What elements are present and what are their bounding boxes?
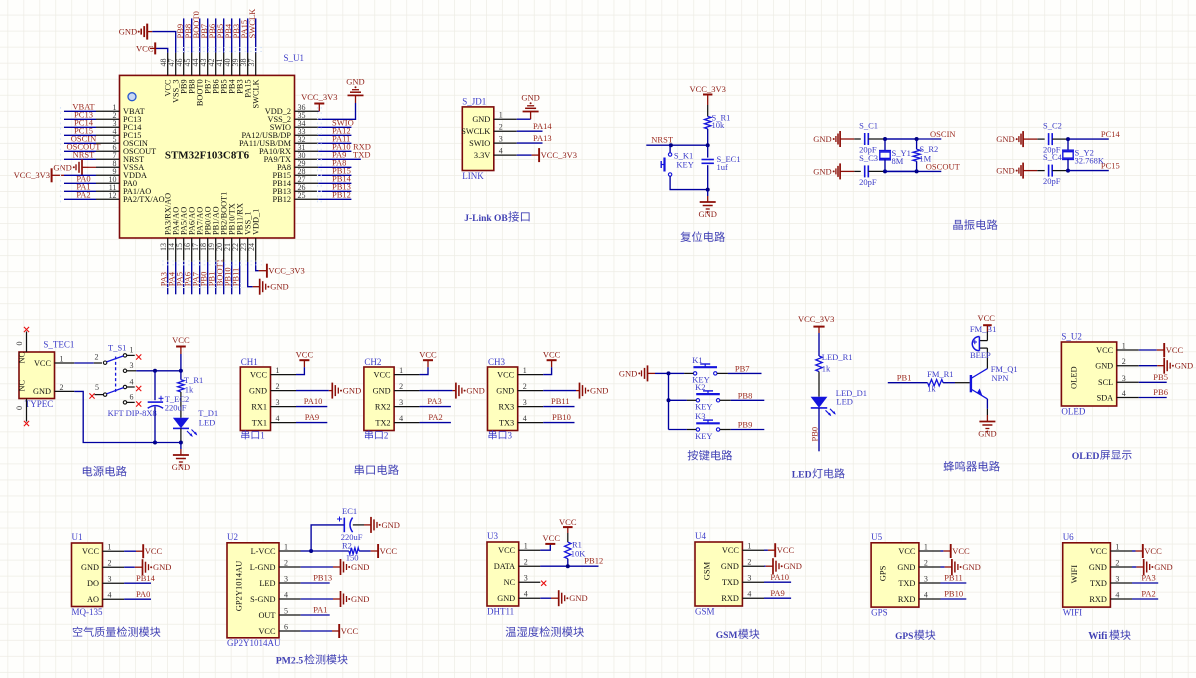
switch throw6 stub	[127, 401, 135, 403]
wire net PB13	[301, 582, 330, 584]
junction	[153, 369, 157, 373]
svg-text:TX2: TX2	[375, 418, 390, 427]
svg-text:FM_R1: FM_R1	[927, 369, 953, 379]
svg-text:220uF: 220uF	[341, 532, 363, 542]
junction	[883, 169, 887, 173]
svg-text:1: 1	[523, 366, 527, 375]
svg-text:PA14: PA14	[533, 121, 552, 131]
svg-text:2: 2	[384, 431, 389, 441]
ground keys	[648, 372, 656, 374]
svg-text:GPS: GPS	[895, 632, 913, 642]
svg-text:PB12: PB12	[584, 556, 603, 566]
svg-text:1k: 1k	[927, 384, 936, 394]
svg-text:OUT: OUT	[258, 611, 275, 620]
wire net OSCIN	[64, 142, 96, 144]
svg-text:2: 2	[747, 558, 751, 567]
U1 pin 1 VCC	[103, 550, 125, 552]
svg-text:WIFI: WIFI	[1063, 607, 1083, 617]
svg-text:GND: GND	[373, 386, 391, 395]
wire K1 to net PB7	[717, 372, 728, 374]
wire emitter to ground	[986, 399, 988, 409]
svg-text:S_C3: S_C3	[859, 153, 878, 163]
svg-text:1: 1	[130, 346, 134, 355]
wire net PA10	[764, 581, 791, 583]
ground for S_C3	[840, 170, 854, 172]
svg-text:KEY: KEY	[695, 402, 712, 412]
capacitor T_EC2 220uF	[148, 401, 163, 403]
capacitor S_C4 20pF	[1048, 165, 1050, 177]
svg-text:GND: GND	[1154, 562, 1172, 572]
svg-text:GND: GND	[721, 562, 739, 571]
wire net PA3	[420, 406, 451, 408]
ground at VSS_3	[146, 24, 148, 40]
svg-text:20pF: 20pF	[859, 177, 877, 187]
svg-text:1: 1	[524, 542, 528, 551]
MCU bottom pin 17 PA7/AO	[199, 238, 201, 262]
svg-text:24: 24	[247, 243, 256, 251]
title 空气质量检测模块	[73, 627, 161, 637]
switch pole5 stub	[95, 394, 104, 396]
svg-text:2: 2	[1122, 357, 1126, 366]
svg-text:2: 2	[524, 558, 528, 567]
svg-text:CH3: CH3	[488, 357, 506, 367]
svg-text:PM2.5: PM2.5	[276, 656, 304, 667]
svg-text:T_D1: T_D1	[198, 408, 218, 418]
wire net PA7	[199, 262, 201, 294]
svg-text:GND: GND	[813, 166, 831, 176]
svg-text:LED: LED	[792, 470, 812, 481]
svg-text:GND: GND	[270, 282, 288, 292]
svg-text:VCC: VCC	[559, 517, 577, 527]
ground for S_C1	[840, 138, 854, 140]
S_U2 pin 3 SCL	[1117, 381, 1139, 383]
MCU right pin 35 VSS_2	[295, 118, 319, 120]
svg-text:GND: GND	[351, 594, 369, 604]
svg-text:4: 4	[399, 414, 403, 423]
U6 pin 3 TXD	[1110, 582, 1132, 584]
MCU right pin 28 PB15	[295, 174, 319, 176]
svg-text:1: 1	[276, 366, 280, 375]
svg-text:SWCLK: SWCLK	[247, 8, 257, 39]
MCU right pin 36 VDD_2	[295, 110, 319, 112]
svg-text:1: 1	[1122, 342, 1126, 351]
svg-text:4: 4	[499, 147, 503, 156]
svg-text:1M: 1M	[919, 154, 931, 164]
svg-text:2: 2	[108, 559, 112, 568]
svg-text:37: 37	[247, 58, 256, 66]
wire net PA2	[1132, 598, 1158, 600]
TEC1 pin 2 GND	[55, 390, 75, 392]
ground buzzer	[979, 421, 995, 423]
MCU left pin 1 VBAT	[96, 110, 120, 112]
U1 pin 2 GND	[103, 566, 125, 568]
svg-text:VCC: VCC	[977, 313, 995, 323]
wire net PA2	[420, 422, 451, 424]
svg-text:2: 2	[399, 382, 403, 391]
power VCC OLED	[1157, 349, 1165, 351]
wire net PB11	[239, 262, 241, 294]
svg-text:PC14: PC14	[1101, 129, 1121, 139]
svg-text:S_U1: S_U1	[284, 53, 305, 63]
ground at JD1	[523, 111, 539, 113]
U2 pin 1 L-VCC	[279, 550, 301, 552]
MCU bottom pin 16 PA6/AO	[191, 238, 193, 262]
wire net PB9	[183, 18, 185, 52]
MCU left pin 12 PA2/TX/AO	[96, 198, 120, 200]
wire net PA13	[517, 142, 543, 144]
svg-text:4: 4	[276, 414, 280, 423]
svg-text:LED: LED	[259, 579, 275, 588]
wire net PA15	[247, 18, 249, 52]
MCU bottom pin 24 VDD_1	[255, 238, 257, 262]
svg-text:4: 4	[747, 590, 751, 599]
svg-text:4: 4	[924, 591, 928, 600]
junction	[566, 564, 570, 568]
svg-text:RX2: RX2	[375, 402, 391, 411]
wire R2 to VCC	[359, 550, 371, 552]
power VCC U1 pin1	[136, 550, 143, 552]
buzzer FM_B1 BEEP	[979, 347, 987, 349]
junction	[179, 369, 183, 373]
ground U4 pin2	[766, 565, 773, 567]
wire net PA5	[183, 262, 185, 294]
CH1 pin 2 GND	[271, 390, 297, 392]
svg-text:PB12: PB12	[273, 195, 291, 204]
junction	[915, 137, 919, 141]
wire GND down to rail	[74, 391, 155, 442]
svg-text:KEY: KEY	[695, 431, 712, 441]
svg-text:3: 3	[284, 575, 288, 584]
wire node to cap	[707, 145, 709, 157]
JD1 pin 3 SWIO	[494, 142, 517, 144]
wire U2 L-GND	[301, 566, 333, 568]
junction	[1066, 169, 1070, 173]
wire net PB15	[318, 174, 351, 176]
CH3 pin 2 GND	[518, 390, 544, 392]
svg-text:J-Link OB: J-Link OB	[464, 214, 508, 224]
wire U2 S-GND	[301, 598, 333, 600]
wire net PA3	[167, 262, 169, 294]
MCU top pin 40 PB4	[231, 53, 233, 76]
wire net PA9	[764, 597, 791, 599]
svg-text:4: 4	[130, 377, 134, 386]
MCU bottom pin 15 PA5/AO	[183, 238, 185, 262]
wire LED_D1 to PB0	[818, 408, 820, 451]
svg-text:GND: GND	[1089, 563, 1107, 572]
svg-text:10k: 10k	[712, 120, 726, 130]
power VCC to pin 48	[155, 48, 168, 52]
wire OLED GND	[1139, 365, 1157, 367]
wire PB1	[888, 382, 928, 384]
wire net PB10	[941, 598, 967, 600]
crystal S_Y1 8M	[879, 150, 891, 152]
wire EC1 to ground	[353, 524, 364, 526]
wire rail	[155, 442, 181, 444]
svg-text:SWCLK: SWCLK	[251, 79, 260, 108]
wire net PA9	[296, 422, 327, 424]
svg-text:GSM: GSM	[702, 561, 712, 580]
svg-text:VCC: VCC	[145, 546, 163, 556]
MCU top pin 47 VSS_3	[175, 53, 177, 76]
svg-text:3: 3	[524, 574, 528, 583]
svg-text:PA2: PA2	[76, 190, 90, 200]
MCU left pin 3 PC14	[96, 126, 120, 128]
wire net SWCLK	[255, 18, 257, 52]
svg-text:4: 4	[1115, 591, 1119, 600]
svg-text:PB14: PB14	[136, 573, 156, 583]
U5 pin 3 TXD	[919, 582, 941, 584]
svg-text:U4: U4	[695, 531, 706, 541]
MCU top pin 45 PB8	[191, 53, 193, 76]
label 串口3	[489, 430, 507, 439]
ground for S_C4	[1023, 170, 1037, 172]
power VCC U5 pin1	[943, 550, 950, 552]
wire net PA3	[1132, 582, 1158, 584]
wire pin8	[89, 166, 97, 168]
no connect U3 pin3	[541, 581, 546, 586]
svg-text:3: 3	[508, 431, 513, 441]
MCU top pin 48 VCC	[167, 53, 169, 76]
svg-text:VCC: VCC	[1090, 547, 1108, 556]
junction	[1066, 137, 1070, 141]
svg-text:LED: LED	[199, 418, 216, 428]
CH3 pin 3 RX3	[518, 406, 544, 408]
wire net PB7	[207, 18, 209, 52]
wire node to crystal	[884, 139, 886, 151]
svg-text:2: 2	[60, 383, 64, 392]
TEC1 pin 1 VCC	[55, 362, 75, 364]
svg-text:12: 12	[109, 191, 117, 200]
svg-text:TYPEC: TYPEC	[25, 399, 54, 409]
svg-text:RX1: RX1	[251, 402, 267, 411]
svg-text:VCC: VCC	[172, 335, 190, 345]
MCU right pin 30 PA9/TX	[295, 158, 319, 160]
ground U5 pin2	[945, 566, 952, 568]
wire net PA1	[64, 190, 96, 192]
svg-text:32.768K: 32.768K	[1075, 155, 1105, 165]
wire K2 to net PB8	[720, 399, 731, 401]
wire net PC15	[64, 134, 96, 136]
wire net PA10	[296, 406, 327, 408]
junction	[706, 188, 710, 192]
svg-text:VCC_3V3: VCC_3V3	[301, 92, 337, 102]
U4 pin 3 TXD	[742, 581, 764, 583]
svg-text:PB5: PB5	[1153, 372, 1168, 382]
junction	[153, 441, 157, 445]
wire U4 VCC	[764, 549, 768, 551]
power VCC U4 pin1	[768, 549, 775, 551]
LED LED_D1	[811, 397, 828, 408]
svg-text:PB10: PB10	[944, 589, 963, 599]
svg-text:4: 4	[284, 591, 288, 600]
wire K3 to net PB9	[720, 429, 731, 431]
MCU left pin 7 NRST	[96, 158, 120, 160]
MCU top pin 46 PB9	[183, 53, 185, 76]
wire JD1 pin1 to ground	[517, 118, 531, 120]
svg-text:PB7: PB7	[735, 363, 750, 373]
wire gnd to S_C4	[1037, 170, 1044, 172]
MCU top pin 41 PB5	[223, 53, 225, 76]
power VCC CH2	[423, 359, 433, 361]
title 温湿度检测模块	[506, 626, 584, 636]
svg-text:1: 1	[284, 543, 288, 552]
wire net PB10	[231, 262, 233, 294]
S_U2 pin 1 VCC	[1117, 349, 1139, 351]
CH3 pin 1 VCC	[518, 374, 544, 376]
U3 pin 2 DATA	[519, 565, 541, 567]
wire CH2 GND	[420, 390, 453, 392]
wire R1 to LED_D1	[818, 372, 820, 397]
wire cap to gnd node	[707, 165, 709, 189]
svg-text:VCC: VCC	[419, 349, 437, 359]
wire net VBAT	[64, 110, 96, 112]
svg-text:S_JD1: S_JD1	[462, 97, 486, 107]
svg-text:TX1: TX1	[252, 418, 267, 427]
title 蜂鸣器电路	[944, 461, 1000, 472]
svg-text:L-GND: L-GND	[250, 563, 276, 572]
wire T_R1 to LED	[180, 392, 182, 418]
svg-text:GND: GND	[521, 93, 539, 103]
connector CH1 body	[240, 367, 270, 431]
wire node to crystal	[1067, 139, 1069, 150]
connector CH3 body	[488, 367, 518, 431]
U4 pin 4 RXD	[742, 597, 764, 599]
svg-text:VCC: VCC	[380, 546, 398, 556]
power VCC buzzer	[983, 324, 992, 326]
ground at VSS_1	[253, 286, 260, 288]
svg-text:PB0: PB0	[810, 427, 820, 442]
svg-text:VCC: VCC	[497, 370, 515, 379]
MCU bottom pin 21 PB10/TX	[231, 238, 233, 262]
connector S_TEC1 body	[19, 352, 55, 399]
wire net PA14	[517, 130, 543, 132]
wire rail to gnd	[180, 443, 182, 450]
MCU left pin 6 OSCOUT	[96, 150, 120, 152]
svg-text:1: 1	[499, 111, 503, 120]
svg-text:GND: GND	[172, 462, 190, 472]
svg-text:NPN: NPN	[992, 373, 1009, 383]
connector S_JD1 body	[462, 107, 494, 171]
power VCC_3V3 at VDD_1	[259, 270, 267, 272]
svg-text:PA0: PA0	[136, 589, 150, 599]
MCU right pin 31 PA10/RX	[295, 150, 319, 152]
svg-text:PB11: PB11	[551, 396, 570, 406]
CH1 pin 3 RX1	[271, 406, 297, 408]
wire VCC to R1	[567, 533, 569, 542]
wire CH1 GND	[296, 390, 329, 392]
svg-text:2: 2	[95, 353, 99, 362]
MCU bottom pin 22 PB11/RX	[239, 238, 241, 262]
ground U3 pin4	[551, 597, 559, 599]
U6 pin 1 VCC	[1110, 550, 1132, 552]
ground U2 pin2	[333, 566, 341, 568]
wire key bottom	[670, 176, 708, 189]
wire net PB8	[191, 18, 193, 52]
CH2 pin 4 TX2	[394, 422, 420, 424]
svg-text:U2: U2	[227, 532, 238, 542]
svg-text:S_U2: S_U2	[1061, 332, 1082, 342]
svg-text:4: 4	[108, 591, 112, 600]
svg-text:GND: GND	[1175, 361, 1193, 371]
resistor FM_R1 1k	[928, 380, 944, 386]
resistor S_R2 1M	[913, 149, 920, 161]
svg-text:SWIO: SWIO	[469, 139, 490, 148]
svg-text:VCC: VCC	[543, 533, 561, 543]
svg-text:GND: GND	[1095, 362, 1113, 371]
svg-text:VCC_3V3: VCC_3V3	[14, 170, 50, 180]
svg-text:VCC: VCC	[296, 349, 314, 359]
wire net SWIO	[318, 126, 351, 128]
wire net PB4	[231, 18, 233, 52]
wire cap to node	[868, 170, 885, 172]
title 按键电路	[688, 450, 733, 461]
svg-text:GSM: GSM	[716, 631, 738, 641]
svg-text:PA2: PA2	[1141, 589, 1155, 599]
svg-text:PB6: PB6	[1153, 387, 1168, 397]
S_U2 pin 2 GND	[1117, 365, 1139, 367]
MCU right pin 34 SWIO	[295, 126, 319, 128]
MCU top pin 39 PB3	[239, 53, 241, 76]
junction	[309, 549, 313, 553]
svg-text:SWCLK: SWCLK	[461, 127, 490, 136]
svg-text:MQ-135: MQ-135	[72, 607, 103, 617]
svg-text:1k: 1k	[185, 385, 194, 395]
no connect mark	[136, 354, 141, 359]
svg-text:3: 3	[523, 398, 527, 407]
wire net PA10	[318, 150, 351, 152]
MCU left pin 8 VSSA	[96, 166, 120, 168]
wire U3 DATA net	[540, 565, 598, 567]
svg-text:VCC_3V3: VCC_3V3	[690, 84, 726, 94]
wire R1 to DATA node	[567, 559, 569, 567]
CH1 pin 4 TX1	[271, 422, 297, 424]
ground U6 pin2	[1136, 566, 1143, 568]
svg-text:OLED: OLED	[1069, 366, 1079, 389]
ground U2 pin4	[333, 598, 341, 600]
svg-text:GND: GND	[897, 563, 915, 572]
svg-text:5: 5	[284, 607, 288, 616]
svg-text:GND: GND	[343, 386, 361, 396]
connector CH2 body	[364, 367, 394, 431]
wire U6 VCC	[1132, 550, 1136, 552]
svg-text:PB13: PB13	[313, 573, 332, 583]
wire NRST	[646, 144, 707, 146]
JD1 pin 1 GND	[494, 118, 517, 120]
wire to LED_R1	[818, 333, 820, 356]
power VCC U6 pin1	[1136, 550, 1143, 552]
wire net BOOT1	[223, 262, 225, 294]
U6 pin 2 GND	[1110, 566, 1132, 568]
svg-text:PB9: PB9	[738, 420, 753, 430]
MCU pin-1 marker circle	[128, 93, 136, 101]
U1 pin 4 AO	[103, 598, 125, 600]
svg-text:1: 1	[399, 366, 403, 375]
wire JD1 pin4	[517, 154, 532, 156]
wire key bus vertical	[668, 373, 670, 429]
wire OLED VCC	[1139, 349, 1157, 351]
svg-text:GSM: GSM	[695, 606, 715, 616]
svg-text:3.3V: 3.3V	[474, 151, 490, 160]
MCU top pin 43 PB7	[207, 53, 209, 76]
svg-text:PA9: PA9	[305, 412, 319, 422]
svg-text:4: 4	[523, 414, 527, 423]
svg-text:3: 3	[276, 398, 280, 407]
power VCC_3V3 to VDDA	[51, 168, 53, 182]
MCU left pin 10 PA0	[96, 182, 120, 184]
wire cap to node	[1052, 138, 1068, 140]
no connect mark	[24, 421, 29, 426]
svg-text:KEY: KEY	[676, 160, 693, 170]
